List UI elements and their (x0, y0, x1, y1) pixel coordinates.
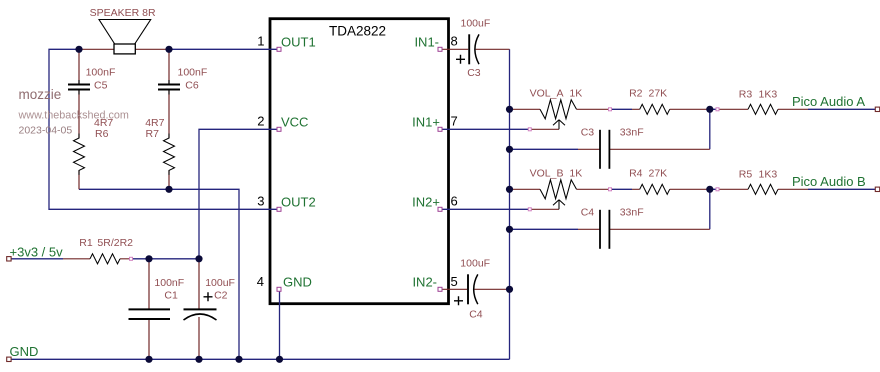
pin 3 square (277, 207, 281, 211)
svg-text:R7: R7 (146, 128, 160, 140)
speaker LS1 (99, 20, 151, 54)
svg-text:2: 2 (257, 114, 264, 129)
svg-text:R1: R1 (79, 237, 93, 249)
wire C4 33nF leads (578, 228, 710, 230)
svg-text:mozzie: mozzie (19, 87, 62, 102)
svg-text:100uF: 100uF (461, 17, 491, 29)
join pot B / R4 (609, 188, 612, 191)
svg-text:Pico Audio A: Pico Audio A (792, 94, 865, 109)
svg-text:1: 1 (257, 34, 264, 49)
svg-text:27K: 27K (649, 87, 668, 99)
pin 8 square (438, 47, 442, 51)
wire VOL_A leads (510, 108, 611, 110)
pin 6 square (438, 207, 442, 211)
wire right vertical bus (509, 49, 511, 359)
svg-text:R2: R2 (629, 87, 643, 99)
potentiometer VOL_B (540, 180, 577, 210)
wire +3v3 rail (11, 258, 199, 260)
svg-text:VCC: VCC (281, 115, 308, 130)
svg-text:100uF: 100uF (460, 258, 490, 270)
resistor R5 (748, 184, 778, 194)
wire VOL_B wiper lead (530, 208, 559, 210)
svg-text:27K: 27K (649, 167, 668, 179)
svg-text:2023-04-05: 2023-04-05 (19, 125, 73, 137)
wire pin1 to speaker-left corner (49, 49, 279, 209)
node GND C1 (145, 356, 152, 363)
svg-text:C1: C1 (164, 290, 178, 302)
svg-text:VOL_B: VOL_B (530, 167, 564, 179)
pin 4 square (277, 287, 281, 291)
join R3 left (716, 108, 719, 111)
node speaker-C6 (165, 46, 172, 53)
wire pin2 VCC down to +3v3 rail (199, 129, 279, 258)
node speaker-C5 (75, 46, 82, 53)
terminal +3v3 (7, 257, 11, 261)
wire R1 leads (63, 258, 131, 260)
resistor R2 (640, 104, 670, 114)
wire R2 leads (632, 108, 710, 110)
join pot A / R2 (609, 108, 612, 111)
capacitor C4 100uF polarized (454, 274, 478, 305)
wire pin5 to C4 100uF (440, 288, 510, 290)
svg-text:4: 4 (257, 274, 264, 289)
capacitor C1 (129, 309, 171, 319)
svg-text:C3: C3 (467, 67, 481, 79)
svg-text:C4: C4 (469, 309, 483, 321)
wire R3 leads (719, 108, 808, 110)
join R5 left (716, 188, 719, 191)
svg-text:GND: GND (283, 275, 312, 290)
svg-text:C5: C5 (94, 80, 108, 92)
svg-text:100uF: 100uF (205, 277, 235, 289)
svg-text:3: 3 (257, 194, 264, 209)
svg-text:100nF: 100nF (178, 67, 208, 79)
svg-text:GND: GND (10, 344, 39, 359)
svg-text:TDA2822: TDA2822 (329, 24, 386, 39)
capacitor C6 (158, 80, 180, 95)
potentiometer VOL_A (540, 100, 577, 130)
pin 2 square (277, 127, 281, 131)
svg-text:7: 7 (451, 114, 458, 129)
svg-text:1K3: 1K3 (759, 169, 778, 181)
pin 1 square (277, 47, 281, 51)
svg-text:IN1+: IN1+ (412, 115, 440, 130)
node GND R6R7 (235, 356, 242, 363)
wire VOL_B leads (510, 188, 611, 190)
svg-text:OUT1: OUT1 (281, 35, 316, 50)
svg-text:5: 5 (451, 274, 458, 289)
resistor R7 (164, 134, 175, 175)
node rail C2/VCC (195, 255, 202, 262)
svg-text:33nF: 33nF (620, 127, 644, 139)
wire wiper A from pin7 (440, 128, 530, 130)
svg-text:6: 6 (451, 194, 458, 209)
svg-text:C6: C6 (185, 80, 199, 92)
pin 7 square (438, 127, 442, 131)
svg-text:IN2-: IN2- (412, 275, 437, 290)
wire R4 leads (632, 188, 710, 190)
svg-text:33nF: 33nF (620, 207, 644, 219)
node R7 bottom (165, 186, 172, 193)
svg-text:C2: C2 (214, 290, 228, 302)
terminal Pico Audio B (875, 187, 879, 191)
join wiper B (528, 208, 531, 211)
svg-text:VOL_A: VOL_A (530, 87, 564, 99)
wire C3 33nF leads (578, 148, 710, 150)
node bus row A (506, 106, 513, 113)
wire C3 33nF row (510, 109, 710, 149)
wire R7 bottom lead (168, 171, 170, 190)
svg-text:IN2+: IN2+ (412, 195, 440, 210)
capacitor C3 100uF polarized (456, 34, 479, 64)
node bus row B (506, 186, 513, 193)
capacitor C4 33nF (600, 210, 609, 249)
resistor R1 (90, 254, 120, 264)
svg-text:R4: R4 (629, 167, 643, 179)
node GND pin4 (276, 356, 283, 363)
svg-text:R3: R3 (739, 89, 753, 101)
svg-text:1K3: 1K3 (759, 89, 778, 101)
wire wiper B from pin6 (440, 208, 530, 210)
wire C2 leads (198, 259, 200, 360)
capacitor C3 33nF (600, 130, 609, 169)
svg-text:+3v3 / 5v: +3v3 / 5v (10, 245, 64, 260)
wire row B segments (610, 188, 875, 190)
svg-text:1K: 1K (569, 167, 582, 179)
resistor R6 (74, 134, 85, 175)
node R2-R3 (706, 106, 713, 113)
wire R5 leads (719, 188, 808, 190)
wire row A segments (610, 108, 875, 110)
wire C1 leads (148, 259, 150, 360)
svg-text:IN1-: IN1- (414, 35, 439, 50)
terminal Pico Audio A (875, 107, 879, 111)
node GND C2 (195, 356, 202, 363)
svg-text:C3: C3 (581, 127, 595, 139)
resistor R3 (748, 104, 778, 114)
svg-text:OUT2: OUT2 (281, 195, 316, 210)
node bus pin5 row (506, 286, 513, 293)
svg-text:8: 8 (451, 34, 458, 49)
svg-text:100nF: 100nF (86, 67, 116, 79)
node rail C1 (145, 255, 152, 262)
op-amp U1 TDA2822 body (270, 19, 449, 304)
capacitor C5 (68, 80, 90, 95)
pin 5 square (438, 287, 442, 291)
join wiper A (528, 128, 531, 131)
svg-text:R6: R6 (95, 128, 109, 140)
wire pin4 to GND rail (279, 289, 281, 359)
join R1 right (130, 257, 133, 260)
node bus C3 row (506, 146, 513, 153)
svg-text:R5: R5 (739, 169, 753, 181)
wire C6 leads (168, 49, 170, 138)
node R4-R5 (706, 186, 713, 193)
svg-text:5R/2R2: 5R/2R2 (97, 237, 133, 249)
svg-text:C4: C4 (581, 207, 595, 219)
svg-text:www.thebackshed.com: www.thebackshed.com (18, 110, 129, 122)
node bus C4 row (506, 226, 513, 233)
capacitor C2 polarized (184, 292, 217, 320)
svg-text:Pico Audio B: Pico Audio B (792, 174, 866, 189)
wire R6/R7 bottoms to GND (79, 189, 239, 359)
resistor R4 (640, 184, 670, 194)
wire pin8 to C3 100uF (440, 48, 510, 50)
wire speaker leads (79, 48, 169, 50)
wire R6 bottom lead (78, 171, 80, 190)
wire C5 leads (78, 49, 80, 138)
wire C4 33nF row (510, 189, 710, 229)
terminal GND (7, 357, 11, 361)
wire VOL_A wiper lead (530, 128, 559, 130)
svg-text:100nF: 100nF (154, 277, 184, 289)
svg-text:1K: 1K (569, 87, 582, 99)
svg-text:SPEAKER 8R: SPEAKER 8R (90, 7, 156, 19)
wire GND rail (11, 358, 509, 360)
